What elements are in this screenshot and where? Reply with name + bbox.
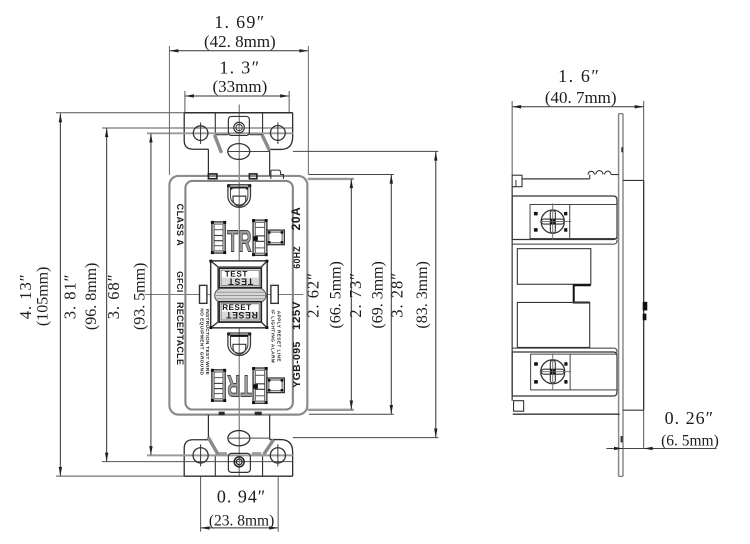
svg-text:(40. 7mm): (40. 7mm) <box>545 88 617 107</box>
svg-text:GFCI: GFCI <box>175 271 185 292</box>
svg-text:2. 62″: 2. 62″ <box>303 272 322 318</box>
svg-text:TR: TR <box>227 368 252 402</box>
mounting strap top edge <box>623 179 644 181</box>
bottom tab right gusset <box>264 440 274 455</box>
svg-text:RECEPTACLE: RECEPTACLE <box>175 302 185 365</box>
middle pillow band <box>215 288 266 302</box>
svg-text:4. 13″: 4. 13″ <box>16 273 35 319</box>
svg-text:(83. 3mm): (83. 3mm) <box>414 261 431 328</box>
frame bevel diagonals <box>211 261 218 267</box>
bottom T-slot horizontal bar <box>267 378 284 393</box>
top tab wallplate screw hole <box>234 122 245 133</box>
bottom tab center boss <box>228 453 250 472</box>
neck foot left at face top <box>208 174 216 179</box>
cover plate edge <box>618 114 620 477</box>
top tab neck right edge <box>269 149 271 175</box>
ext lines 2.73 <box>309 174 394 176</box>
dim line 0.26 <box>606 447 716 449</box>
top T-slot horizontal bar <box>267 230 284 245</box>
dim line 3.68 <box>150 134 152 456</box>
bottom tab left gusset <box>208 437 218 454</box>
body bottom edge <box>513 413 620 415</box>
svg-text:CLASS A: CLASS A <box>175 204 185 247</box>
body middle upper box <box>517 249 590 285</box>
svg-text:TR: TR <box>227 224 252 258</box>
bottom mounting tab bottom edge <box>56 475 184 477</box>
svg-text:NO EQUIPMENT GROUND: NO EQUIPMENT GROUND <box>198 308 204 375</box>
bottom tab notch left <box>214 454 216 476</box>
svg-text:(96. 8mm): (96. 8mm) <box>83 263 100 330</box>
extension line 3.81 bottom through wallplate screw hole <box>102 461 292 463</box>
top tab center boss <box>228 116 249 135</box>
bottom tab oval hole <box>228 431 250 446</box>
ext lines 3.28 <box>293 150 438 152</box>
neck foot right at face top <box>249 174 256 179</box>
body bottom-left foot <box>514 401 524 411</box>
svg-text:60HZ: 60HZ <box>292 246 302 269</box>
neck foot right at face bottom <box>255 412 262 415</box>
top tab right gusset <box>262 135 269 151</box>
bottom ground hole <box>227 332 251 355</box>
ext lines 1.3 <box>184 91 186 112</box>
svg-text:RESET: RESET <box>226 310 258 320</box>
svg-text:20A: 20A <box>289 207 303 231</box>
svg-text:(42. 8mm): (42. 8mm) <box>204 32 276 51</box>
left side tab <box>200 285 207 303</box>
bottom left slot <box>211 369 226 402</box>
top ground hole <box>227 184 251 207</box>
body middle notch <box>574 285 591 302</box>
svg-text:0. 26″: 0. 26″ <box>665 408 714 428</box>
button assembly outer frame <box>211 261 267 328</box>
svg-text:0. 94″: 0. 94″ <box>217 487 266 507</box>
bottom tab wallplate screw hole <box>234 457 244 467</box>
ext lines 0.94 <box>200 477 202 532</box>
svg-text:IF LIGHTING ALARM: IF LIGHTING ALARM <box>270 310 276 364</box>
extension line 3.81 top through wallplate screw hole <box>102 127 292 129</box>
bottom tab notch ledge left <box>218 452 227 455</box>
body top-left clip <box>512 175 522 186</box>
bottom tab notch ledge right <box>252 452 261 455</box>
dim line 2.62 <box>350 179 352 409</box>
top T-slot vertical <box>252 219 268 256</box>
top tab left screw hole <box>193 126 208 141</box>
body left edge <box>511 187 513 401</box>
top left slot (neutral shutter) <box>211 221 226 254</box>
extension line 3.68 bottom through mounting screw holes <box>147 454 293 456</box>
svg-text:(105mm): (105mm) <box>34 267 51 327</box>
svg-text:(23. 8mm): (23. 8mm) <box>209 513 274 530</box>
dim line 0.94 <box>201 527 279 529</box>
bottom tab notch right <box>262 454 264 476</box>
dim line 2.73 <box>390 175 392 414</box>
upper terminal bracket <box>512 196 617 239</box>
bottom T-slot vertical <box>252 367 268 404</box>
bottom tab right ear outline <box>270 440 293 477</box>
plate tick marks <box>621 147 623 152</box>
ext line 1.6 right / strap edge <box>643 101 645 180</box>
dim line 1.69 <box>169 50 308 52</box>
svg-text:2. 73″: 2. 73″ <box>346 272 365 318</box>
svg-text:125V: 125V <box>291 301 303 330</box>
svg-text:YGB-095: YGB-095 <box>292 341 303 388</box>
right side tab <box>271 285 278 303</box>
RESET button <box>219 302 261 322</box>
svg-text:3. 68″: 3. 68″ <box>104 273 123 319</box>
top tab oval hole <box>228 144 250 160</box>
bottom tab left screw hole <box>193 448 208 463</box>
top tab left ear outline <box>184 113 208 149</box>
bottom tab right screw hole <box>270 448 285 463</box>
lower terminal bracket <box>512 352 617 396</box>
svg-text:1. 69″: 1. 69″ <box>214 12 265 32</box>
top tab notch left <box>215 113 228 135</box>
dim line 3.28 <box>435 152 437 438</box>
svg-text:(93. 5mm): (93. 5mm) <box>131 263 148 330</box>
dim line 1.6 <box>512 106 644 108</box>
ext lines 2.62 grey <box>308 178 354 180</box>
svg-text:(69. 3mm): (69. 3mm) <box>369 261 386 328</box>
top tab right screw hole <box>270 126 285 141</box>
svg-text:3. 81″: 3. 81″ <box>60 273 79 319</box>
upper terminal screw <box>541 210 564 233</box>
svg-text:APPLY RESET LINE: APPLY RESET LINE <box>275 311 281 362</box>
svg-text:(6. 5mm): (6. 5mm) <box>661 432 719 449</box>
centerline vertical <box>238 104 240 476</box>
svg-text:(66. 5mm): (66. 5mm) <box>327 261 344 328</box>
body middle lower box <box>517 302 589 347</box>
strap latch details <box>643 302 648 311</box>
dim line 4.13 <box>59 113 61 476</box>
bottom tab neck right edge <box>269 415 271 440</box>
svg-text:INSTRUCTION TEST WIRE: INSTRUCTION TEST WIRE <box>204 309 210 375</box>
bottom tab neck left edge <box>207 415 209 440</box>
svg-text:TEST: TEST <box>228 276 254 286</box>
svg-text:3. 28″: 3. 28″ <box>387 272 406 318</box>
hook detail right of neck <box>271 170 284 179</box>
face plate outer <box>169 176 307 415</box>
centerline horizontal <box>145 294 304 296</box>
svg-text:1. 3″: 1. 3″ <box>219 57 260 77</box>
top tab neck left edge <box>207 149 209 176</box>
body top edge <box>522 178 590 180</box>
ext lines 1.69 <box>168 46 170 175</box>
TEST button <box>219 268 261 287</box>
top mounting tab top edge <box>56 112 184 114</box>
face plate inner <box>185 181 292 410</box>
bottom tab left ear outline <box>184 440 208 476</box>
dim line 3.81 <box>106 128 108 461</box>
terminal screw bumps on top <box>589 175 591 179</box>
svg-text:(33mm): (33mm) <box>213 77 268 96</box>
top tab notch right <box>250 113 263 135</box>
svg-text:1. 6″: 1. 6″ <box>558 66 600 86</box>
top tab right ear outline <box>270 113 293 150</box>
mounting strap bottom edge <box>623 409 644 411</box>
lower terminal screw <box>541 360 565 384</box>
ext line 1.6 left <box>511 101 513 175</box>
dim line 1.3 <box>185 95 289 97</box>
extension line 3.68 top through mounting screw holes <box>147 132 293 134</box>
top tab left gusset <box>214 135 221 153</box>
neck foot left at face bottom <box>219 412 225 415</box>
